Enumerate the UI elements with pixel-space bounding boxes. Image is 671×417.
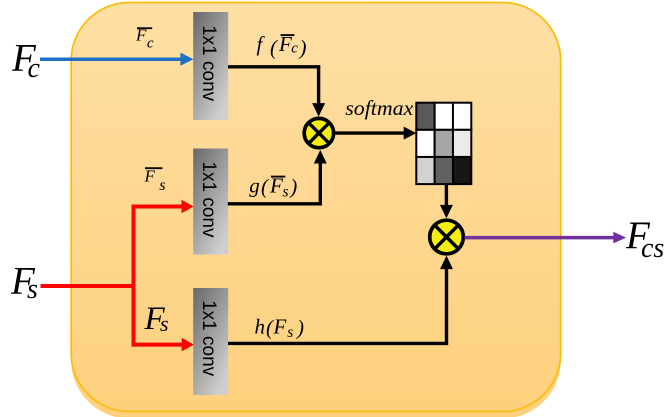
svg-text:F: F <box>144 167 156 186</box>
svg-text:s: s <box>160 311 169 336</box>
svg-text:s: s <box>287 324 293 341</box>
svg-text:g: g <box>249 174 259 198</box>
svg-text:s: s <box>27 274 38 305</box>
svg-text:c: c <box>147 36 154 52</box>
svg-text:1x1 conv: 1x1 conv <box>198 161 219 238</box>
svg-text:softmax: softmax <box>345 96 414 120</box>
svg-text:F: F <box>273 315 287 339</box>
svg-text:): ) <box>289 175 297 199</box>
svg-text:cs: cs <box>641 233 664 264</box>
svg-text:): ) <box>296 315 304 339</box>
svg-text:h: h <box>255 315 266 339</box>
svg-text:1x1 conv: 1x1 conv <box>198 300 219 377</box>
svg-text:c: c <box>28 53 41 84</box>
svg-text:s: s <box>283 184 289 201</box>
svg-text:s: s <box>159 177 165 194</box>
svg-text:1x1 conv: 1x1 conv <box>198 25 219 102</box>
svg-text:c: c <box>291 40 298 56</box>
svg-text:F: F <box>135 26 147 45</box>
svg-text:): ) <box>299 36 307 60</box>
